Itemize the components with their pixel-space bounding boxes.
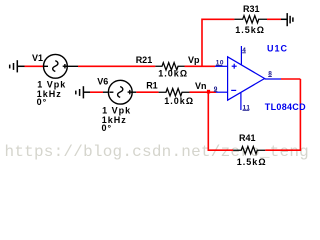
svg-text:V1: V1 xyxy=(32,53,43,63)
svg-text:1.0kΩ: 1.0kΩ xyxy=(158,68,188,78)
svg-text:1.5kΩ: 1.5kΩ xyxy=(235,25,265,35)
svg-text:1.5kΩ: 1.5kΩ xyxy=(237,157,267,167)
svg-text:TL084CD: TL084CD xyxy=(265,102,306,112)
svg-text:0°: 0° xyxy=(37,97,48,107)
svg-text:V6: V6 xyxy=(97,77,108,87)
svg-text:Vp: Vp xyxy=(188,55,200,65)
svg-text:R21: R21 xyxy=(136,55,153,65)
svg-text:0°: 0° xyxy=(102,123,113,133)
svg-text:1.0kΩ: 1.0kΩ xyxy=(164,96,194,106)
svg-text:U1C: U1C xyxy=(267,44,288,54)
svg-text:R31: R31 xyxy=(243,4,260,14)
svg-text:Vn: Vn xyxy=(195,81,207,91)
svg-text:R41: R41 xyxy=(239,133,256,143)
svg-text:R1: R1 xyxy=(146,81,158,91)
